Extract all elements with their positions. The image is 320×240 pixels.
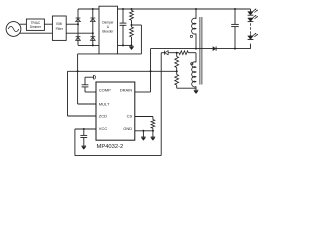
node primary drain junction xyxy=(195,48,197,50)
wire MULT run box bottom to corner xyxy=(118,53,142,55)
node output cap bottom xyxy=(234,48,236,50)
svg-text:ZCD: ZCD xyxy=(99,113,107,118)
diode D3 (bridge bottom-left) xyxy=(76,37,81,41)
LED LED3 xyxy=(248,33,258,39)
svg-text:Damper: Damper xyxy=(102,20,114,24)
wire VCC pin xyxy=(75,128,96,130)
pin label MULT xyxy=(99,101,110,106)
node output cap top xyxy=(234,8,236,10)
terminal COMP test point xyxy=(94,75,96,79)
node B ZCD junction xyxy=(176,70,178,72)
wire bridge left column xyxy=(77,9,79,45)
capacitor C3 (VCC) xyxy=(80,129,87,146)
svg-text:Filter: Filter xyxy=(56,27,64,31)
svg-text:MP4032-2: MP4032-2 xyxy=(97,144,124,150)
wire AC neutral to EMI filter xyxy=(20,32,53,34)
wire LED dashed continuation xyxy=(250,23,252,34)
wire GND pin xyxy=(135,130,153,132)
pin label ZCD xyxy=(99,113,107,118)
wire MULT divider to corner xyxy=(132,24,142,26)
ground (IC GND) xyxy=(141,131,146,141)
diode D6 (output rectifier) xyxy=(213,46,216,50)
capacitor C2 (COMP) xyxy=(82,85,89,87)
node VIN cap junction xyxy=(122,8,124,10)
wire VIN top rail xyxy=(118,8,251,10)
wire COMP cap top xyxy=(85,77,93,85)
node MULT divider xyxy=(131,24,133,26)
wire MULT vertical xyxy=(140,25,142,54)
TRIAC dimmer block xyxy=(26,19,44,30)
resistor R3 (aux series) xyxy=(179,51,188,55)
ground (input divider) xyxy=(129,46,134,49)
wire MULT to pin xyxy=(78,103,96,105)
LED LED2 xyxy=(248,15,258,21)
pin label CS xyxy=(127,113,133,118)
AC source V1 xyxy=(6,22,21,37)
op-amp U1 MP4032-2 body xyxy=(96,82,135,140)
wire aux return xyxy=(177,87,196,89)
wire bridge right column xyxy=(92,9,94,45)
transformer T1 core xyxy=(200,17,202,85)
pin label GND xyxy=(123,126,132,131)
wire diode to output cap xyxy=(216,48,250,50)
wire TRIAC dimmer to EMI filter xyxy=(44,23,52,25)
node AC2 junction xyxy=(92,32,94,34)
svg-text:GND: GND xyxy=(123,126,132,131)
wire bottom rail bridge to damper box xyxy=(78,44,99,46)
resistor R2 (divider lower) xyxy=(130,25,134,46)
wire EMI filter to bridge node AC2 xyxy=(66,32,93,34)
damper and bleeder block xyxy=(99,6,118,54)
wire DRAIN to primary xyxy=(151,48,214,50)
inductor T1 primary winding xyxy=(192,9,196,49)
pin label COMP xyxy=(99,87,111,92)
resistor R5 (ZCD lower) xyxy=(175,71,179,88)
node VCC cap junction xyxy=(83,128,85,130)
wire VCC left vertical xyxy=(74,129,76,156)
svg-text:DRAIN: DRAIN xyxy=(120,87,133,92)
ground (VCC cap) xyxy=(82,146,87,149)
wire VCC bottom run xyxy=(75,155,161,157)
diode D5 (VCC rectifier) xyxy=(165,51,169,55)
wire aux diode anode to node A xyxy=(168,52,179,54)
svg-text:Bleeder: Bleeder xyxy=(102,30,114,34)
label MP4032-2 xyxy=(97,144,124,150)
pin label DRAIN xyxy=(120,87,133,92)
svg-text:Dimmer: Dimmer xyxy=(30,25,42,29)
resistor R1 (divider upper) xyxy=(130,9,134,25)
wire MULT column xyxy=(77,54,79,104)
node AC1 junction xyxy=(77,23,79,25)
node ZCD drain-sense junction xyxy=(150,70,152,72)
svg-text:MULT: MULT xyxy=(99,101,110,106)
svg-text:CS: CS xyxy=(127,113,133,118)
wire DRAIN pin xyxy=(135,91,151,93)
resistor R4 (ZCD upper) xyxy=(175,53,179,72)
node A aux divider xyxy=(176,52,178,54)
wire EMI filter to bridge node AC1 xyxy=(66,23,78,25)
LED string riser corner xyxy=(250,44,252,49)
wire ZCD vertical xyxy=(67,71,69,116)
capacitor C1 (input) xyxy=(120,9,127,46)
node GND junction 1 xyxy=(142,130,144,132)
polarity dot (primary) xyxy=(190,35,192,37)
node VIN primary junction xyxy=(195,8,197,10)
diode D4 (bridge bottom-right) xyxy=(90,37,95,41)
wire bottom rail right of box xyxy=(118,44,132,46)
wire VCC to diode cathode xyxy=(161,52,164,54)
LED LED1 xyxy=(248,9,258,15)
wire COMP pin to cap xyxy=(85,87,96,92)
wire top rail bridge to damper box xyxy=(78,8,99,10)
svg-text:COMP: COMP xyxy=(99,87,111,92)
EMI filter block xyxy=(52,16,66,40)
wire aux top to winding xyxy=(188,52,196,54)
diode D1 (bridge top-left) xyxy=(76,18,81,22)
diode D2 (bridge top-right) xyxy=(90,18,95,22)
wire DRAIN vertical xyxy=(150,49,152,92)
pin label VCC xyxy=(99,126,108,131)
inductor T1 aux winding xyxy=(192,53,196,88)
wire CS pin xyxy=(135,116,153,118)
node GND junction 2 xyxy=(152,130,154,132)
polarity dot (aux) xyxy=(191,63,193,65)
node VIN divider junction xyxy=(131,8,133,10)
wire AC hot to TRIAC dimmer xyxy=(20,23,27,25)
svg-text:VCC: VCC xyxy=(99,126,108,131)
ground (aux winding) xyxy=(194,88,199,93)
capacitor C4 (output) xyxy=(231,9,239,49)
wire ZCD pin to corner xyxy=(68,115,97,117)
svg-text:EMI: EMI xyxy=(56,22,62,26)
wire MULT run under damper box xyxy=(78,53,99,55)
wire LED string top xyxy=(250,9,252,12)
wire ZCD horizontal to aux divider xyxy=(68,70,177,72)
wire VCC right vertical xyxy=(160,53,162,156)
resistor R6 (current sense) xyxy=(151,117,155,131)
node MULT column junction xyxy=(77,70,79,72)
ground (CS resistor) xyxy=(151,131,156,141)
